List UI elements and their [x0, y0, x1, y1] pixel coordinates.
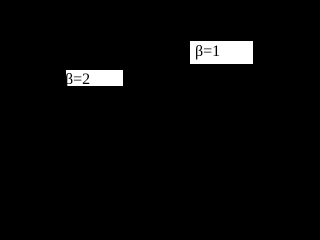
label box β=2: [66, 70, 123, 86]
label box β=1: [190, 41, 253, 64]
